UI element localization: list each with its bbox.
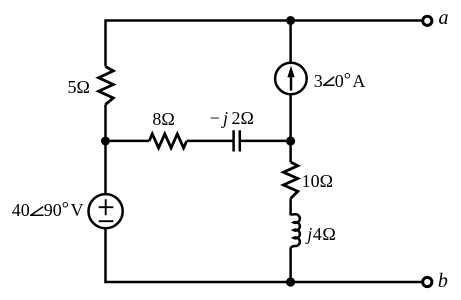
value label 3∠0°A xyxy=(314,72,366,90)
wire left branch upper xyxy=(104,19,107,66)
inductor j4Ω coil xyxy=(291,214,300,248)
resistor 5Ω xyxy=(99,67,114,105)
wire middle branch right segment xyxy=(241,140,291,143)
value label 40∠90°V xyxy=(12,201,84,219)
value label 10Ω xyxy=(302,172,333,190)
wire middle branch left segment xyxy=(106,140,150,143)
current source arrow head xyxy=(287,66,294,78)
wire middle branch center segment xyxy=(187,140,234,143)
junction left-middle node xyxy=(101,137,110,146)
node label b xyxy=(438,271,448,291)
value label 5Ω xyxy=(68,78,90,96)
wire right branch top xyxy=(289,19,292,63)
terminal a xyxy=(423,16,432,25)
value label j4Ω xyxy=(307,225,335,243)
wire left branch middle xyxy=(104,105,107,195)
junction middle-right node xyxy=(286,136,295,145)
wire top rail xyxy=(106,19,422,22)
voltage source 40&#8736;90&#176;V circle xyxy=(89,194,123,228)
node label a xyxy=(439,8,449,28)
resistor 10Ω xyxy=(283,162,297,199)
voltage source plus sign xyxy=(99,199,114,215)
wire bottom rail xyxy=(104,281,421,284)
current source 3&#8736;0&#176;A circle xyxy=(275,63,307,95)
terminal b xyxy=(423,277,432,286)
current source arrow shaft xyxy=(290,75,292,91)
value label 8Ω xyxy=(152,110,174,128)
capacitor -j2Ω plates xyxy=(234,130,240,151)
wire between 10Ω and inductor xyxy=(289,199,292,216)
value label -j2Ω xyxy=(210,109,254,127)
voltage source minus sign xyxy=(99,220,114,222)
junction top node xyxy=(286,16,295,25)
wire left branch lower xyxy=(104,228,107,283)
resistor 8Ω xyxy=(149,134,187,148)
wire right branch bottom xyxy=(289,248,292,284)
junction bottom node xyxy=(286,277,295,286)
wire right branch below current source xyxy=(289,94,292,162)
